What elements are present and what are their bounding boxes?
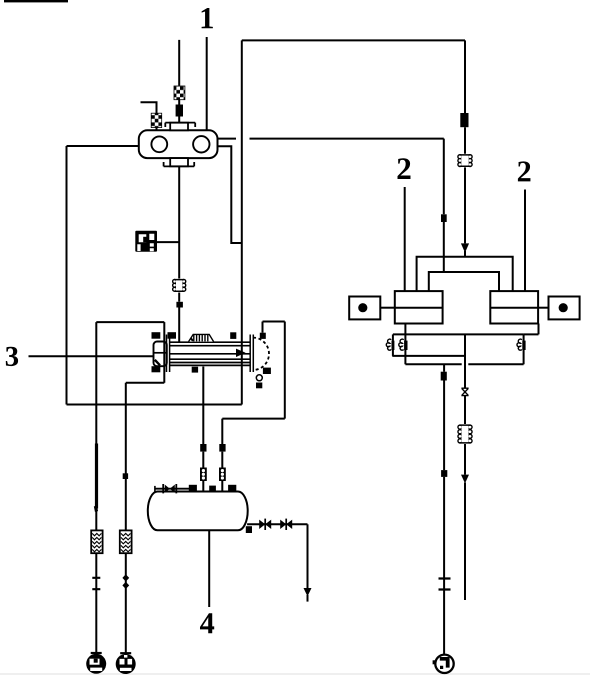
discharge pipe lower right elbow <box>218 146 242 243</box>
left cylinder bottom stub <box>404 324 406 335</box>
valve block on water pipe 2 <box>123 473 128 479</box>
drain plug circle below right head <box>256 375 262 381</box>
union fitting on oil return <box>439 579 451 590</box>
right head nozzle top <box>260 333 266 339</box>
valve block on oil pipe <box>176 302 183 308</box>
suction pipe (top) <box>178 40 180 123</box>
left tube sheet <box>167 335 170 373</box>
spring glyph on leg S-b <box>399 339 404 350</box>
compressor U1 body <box>139 130 218 158</box>
bottom header pipe h1 <box>393 333 524 335</box>
head corner mark <box>155 360 160 366</box>
label 2 (right) <box>518 161 531 181</box>
valve block on feed 1 <box>200 444 206 452</box>
exchanger nozzle top-left <box>152 332 161 339</box>
coil / flexible joint on feed B <box>458 154 472 167</box>
center drain pipe <box>464 334 466 600</box>
compressor bottom nozzle flange <box>164 158 195 166</box>
exchanger nozzle bottom-left <box>152 366 161 372</box>
spring leg S-a <box>392 334 394 356</box>
connector M2 to right cylinder <box>538 307 548 309</box>
vessel outlet pipe right <box>247 523 307 525</box>
right loop stub from exchanger head <box>262 322 264 333</box>
finned dome on shell top <box>189 334 214 341</box>
shell and tube lines <box>169 342 250 365</box>
bottom header pipe h2 <box>392 355 465 357</box>
pump P3 <box>433 655 454 673</box>
right loop down pipe <box>284 322 286 419</box>
leader line to heat exchanger 3 <box>29 355 154 357</box>
bypass riser pipe <box>241 40 243 404</box>
flow arrow on center drain <box>461 475 469 484</box>
top header pipe <box>242 39 465 41</box>
cylinder 2 left box <box>395 291 443 323</box>
oil pipe compressor to exchanger <box>178 166 180 342</box>
outlet arrow <box>304 588 312 596</box>
outlet elbow down <box>307 524 309 588</box>
label 2 (left) <box>398 158 411 179</box>
water pipe 1 (left) <box>95 322 97 654</box>
left loop lower pipe <box>126 382 165 384</box>
motor M1 left small box <box>349 297 380 320</box>
left loop vertical through head <box>163 322 165 383</box>
valve V2 solid block on suction pipe <box>176 105 183 117</box>
vessel nozzle cap 2 <box>209 486 216 492</box>
water pipe 2 (right) <box>125 383 127 655</box>
filter F2 <box>120 530 132 553</box>
vessel nozzle cap 3 <box>228 485 236 492</box>
bottom header pipe h3 (with crossover gap) <box>405 363 523 365</box>
outlet valve 2 <box>280 519 292 530</box>
leader line to right cylinder 2 <box>524 190 526 292</box>
leader line to separator 4 <box>208 531 210 608</box>
leader line to left cylinder 2 <box>404 187 406 291</box>
outlet valve 1 <box>259 519 271 530</box>
compressor rotor circle left <box>151 136 167 152</box>
valve V4 block on feed A <box>441 214 447 222</box>
valve V1 on suction pipe (checkered) <box>174 86 185 100</box>
feed pipe B to outer manifold <box>464 40 466 256</box>
right cylinder bottom jog <box>524 324 539 335</box>
vessel feed pipe 2 <box>221 419 223 492</box>
pump P1 <box>86 653 106 674</box>
leader line to compressor 1 <box>206 37 208 130</box>
bottom return pipe <box>67 404 242 406</box>
cylinder 2 right box <box>490 291 538 323</box>
oil separator 4 vessel <box>148 492 248 531</box>
compressor rotor circle right <box>193 136 209 152</box>
vessel nozzle cap 1 <box>189 485 197 492</box>
bottom scan band <box>0 673 590 675</box>
right floating head (dashed) <box>253 338 269 370</box>
left return pipe <box>66 146 68 405</box>
tee line from oil pump unit <box>157 241 179 243</box>
valve block on oil return (lower) <box>441 470 447 477</box>
coil on oil pipe <box>173 279 186 292</box>
valve block on feed 2 <box>219 444 225 452</box>
valve V3 on side inlet (checkered) <box>151 113 162 127</box>
oil return pipe to pump P3 <box>443 364 445 655</box>
union fitting on water pipe 1 <box>92 578 100 589</box>
double check valve on water pipe 2 <box>122 574 129 589</box>
label 1 <box>202 8 213 28</box>
label 3 <box>6 347 18 366</box>
manifold inner inverted U <box>429 272 499 291</box>
suction header pipe (left port of compressor) <box>67 145 139 147</box>
connector M1 to left cylinder <box>380 307 395 309</box>
spring glyph on leg S-c <box>517 339 522 350</box>
drain plug cap <box>256 383 262 389</box>
head partition line <box>154 352 167 354</box>
vent line with valve on vessel top-left <box>155 484 190 493</box>
valve block on oil return (upper) <box>441 372 447 381</box>
spring glyph on leg S-a <box>386 339 391 350</box>
vessel feed pipe 1 <box>202 367 204 492</box>
coil fitting on feed 1 <box>200 468 207 482</box>
coil fitting on feed 2 <box>219 468 226 482</box>
right loop bottom pipe <box>222 418 284 420</box>
valve V5 block on feed B <box>460 113 468 127</box>
exchanger nozzle bottom-middle <box>192 367 198 373</box>
right loop top pipe <box>263 321 285 323</box>
heavy segment on water pipe 1 <box>95 444 96 512</box>
spring leg S-c <box>523 334 525 364</box>
pump P2 <box>116 653 136 674</box>
block at vessel outlet <box>246 526 252 533</box>
compressor top nozzle flange <box>165 123 195 131</box>
heat exchanger 3 left channel head <box>154 342 167 367</box>
exchanger nozzle top-right <box>230 332 236 339</box>
manifold outer inverted U <box>417 257 513 291</box>
flow arrow inside shell <box>236 349 246 357</box>
right head nozzle bottom <box>263 368 271 374</box>
small valve on center drain <box>461 388 468 395</box>
exchanger nozzle tube-sheet-top <box>168 332 177 339</box>
side inlet elbow pipe <box>141 102 157 130</box>
oil pump unit (small box) <box>135 231 157 252</box>
motor M2 right small box <box>549 297 580 320</box>
filter F1 <box>91 530 102 553</box>
coil on center drain <box>458 425 472 444</box>
left loop top pipe <box>96 321 164 323</box>
label 4 <box>200 613 214 633</box>
feed pipe A to inner manifold <box>443 139 445 272</box>
discharge pipe upper right (with crossover gap) <box>218 138 444 140</box>
flow arrow on feed B <box>461 243 469 252</box>
right tube sheet <box>250 335 253 373</box>
spring leg S-b <box>404 334 406 364</box>
border tick top-left <box>4 0 68 2</box>
